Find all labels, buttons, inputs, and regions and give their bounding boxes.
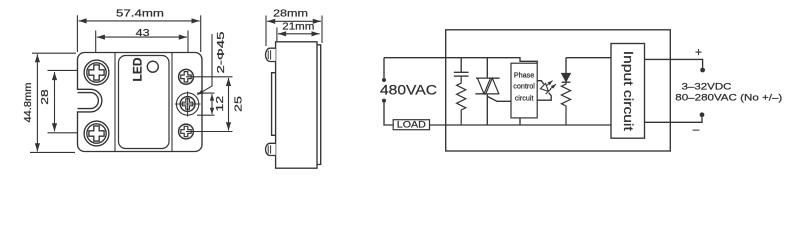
- svg-text:44.8mm: 44.8mm: [22, 82, 34, 122]
- svg-text:circuit: circuit: [515, 94, 534, 103]
- svg-text:Input circuit: Input circuit: [621, 51, 636, 131]
- svg-text:Phase: Phase: [514, 70, 534, 79]
- svg-text:43: 43: [136, 27, 150, 39]
- svg-text:LOAD: LOAD: [397, 120, 427, 130]
- svg-text:12: 12: [214, 96, 226, 112]
- svg-text:3–32VDC: 3–32VDC: [682, 82, 732, 92]
- svg-text:21mm: 21mm: [282, 21, 314, 33]
- svg-text:57.4mm: 57.4mm: [116, 7, 164, 19]
- svg-text:control: control: [513, 82, 535, 91]
- svg-text:+: +: [695, 45, 702, 59]
- svg-text:480VAC: 480VAC: [380, 81, 437, 97]
- svg-text:80–280VAC (No +/–): 80–280VAC (No +/–): [675, 93, 782, 103]
- svg-text:LED: LED: [133, 58, 145, 82]
- svg-text:–: –: [693, 122, 700, 136]
- svg-text:28: 28: [39, 89, 51, 105]
- svg-text:25: 25: [233, 96, 245, 112]
- svg-text:28mm: 28mm: [273, 8, 308, 20]
- svg-text:2-Φ45: 2-Φ45: [215, 31, 227, 73]
